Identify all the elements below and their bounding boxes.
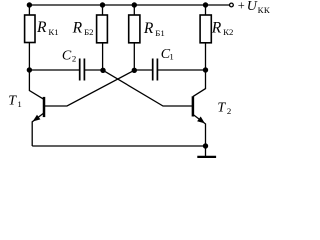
svg-text:2: 2 bbox=[227, 106, 231, 116]
svg-text:1: 1 bbox=[169, 52, 173, 62]
junction dot top RK2 bbox=[203, 2, 208, 7]
label RB2 bbox=[72, 19, 94, 37]
capacitor C2 bbox=[80, 59, 85, 81]
junction dot ground node bbox=[203, 143, 208, 148]
svg-text:КК: КК bbox=[258, 5, 271, 15]
wire RK2 bottom stub bbox=[205, 43, 207, 70]
junction dot top RK1 bbox=[27, 2, 32, 7]
capacitor C1 bbox=[153, 59, 158, 81]
label RB1 bbox=[143, 20, 165, 38]
wire RB2 bottom stub bbox=[102, 43, 104, 70]
wire node A segment: RK1 to C2 bbox=[29, 69, 79, 71]
wire RB2 top stub bbox=[102, 5, 104, 15]
label RK1 bbox=[36, 19, 59, 37]
label C1 bbox=[161, 47, 174, 62]
label RK2 bbox=[211, 20, 234, 37]
resistor RK2 bbox=[200, 15, 211, 43]
ground symbol bar bbox=[197, 156, 216, 158]
resistor RB1 bbox=[129, 15, 140, 43]
wire C2 to RB2 node bbox=[85, 69, 103, 71]
svg-text:T: T bbox=[8, 94, 17, 109]
junction dot top RB1 bbox=[132, 2, 137, 7]
wire RB1 bottom stub bbox=[133, 43, 135, 70]
wire cross-coupling RB2 node to T2 base bbox=[103, 70, 192, 106]
wire RK2 top stub bbox=[205, 5, 207, 15]
wire top supply rail bbox=[29, 4, 229, 6]
transistor T2 base bar bbox=[192, 96, 195, 116]
svg-text:К2: К2 bbox=[223, 27, 233, 37]
svg-text:Б1: Б1 bbox=[155, 28, 164, 38]
transistor T1 emitter arrow bbox=[33, 115, 41, 122]
svg-text:C: C bbox=[62, 48, 72, 63]
wire RB1 node to C1 bbox=[134, 69, 152, 71]
wire RB1 top stub bbox=[133, 5, 135, 15]
wire cross-coupling RB1 node to T1 base bbox=[45, 70, 135, 106]
junction dot node RK1/C2 bbox=[27, 67, 32, 72]
ground stub bbox=[205, 146, 207, 156]
wire T2 emitter bbox=[193, 114, 206, 146]
svg-text:R: R bbox=[143, 20, 154, 37]
terminal +UKK bbox=[230, 3, 234, 7]
label T2 bbox=[217, 101, 231, 117]
junction dot node RB2 bbox=[100, 68, 105, 73]
svg-text:T: T bbox=[217, 101, 226, 116]
wire T1 emitter bbox=[32, 113, 44, 146]
wire T2 collector bbox=[193, 70, 206, 97]
junction dot node RK2/C1 bbox=[203, 67, 208, 72]
transistor T2 emitter arrow bbox=[197, 117, 205, 124]
svg-text:+: + bbox=[238, 0, 245, 13]
label +UKK bbox=[238, 0, 270, 15]
transistor T1 base bar bbox=[43, 97, 46, 117]
wire T1 collector bbox=[29, 70, 44, 99]
svg-text:R: R bbox=[211, 20, 222, 37]
resistor RK1 bbox=[25, 15, 35, 43]
svg-text:R: R bbox=[72, 19, 83, 36]
svg-text:К1: К1 bbox=[48, 27, 58, 37]
label T1 bbox=[8, 94, 22, 109]
svg-text:Б2: Б2 bbox=[84, 27, 93, 37]
svg-text:2: 2 bbox=[72, 54, 76, 64]
svg-text:U: U bbox=[247, 0, 258, 14]
wire bottom emitter rail bbox=[32, 145, 205, 147]
label C2 bbox=[62, 48, 76, 63]
junction dot node RB1 bbox=[132, 68, 137, 73]
wire C1 to RK2 node bbox=[158, 69, 206, 71]
svg-text:1: 1 bbox=[17, 99, 21, 109]
wire RK1 top stub bbox=[28, 5, 30, 15]
wire RK1 bottom stub bbox=[28, 43, 30, 71]
svg-text:R: R bbox=[36, 19, 47, 36]
junction dot top RB2 bbox=[100, 2, 105, 7]
resistor RB2 bbox=[97, 15, 108, 43]
